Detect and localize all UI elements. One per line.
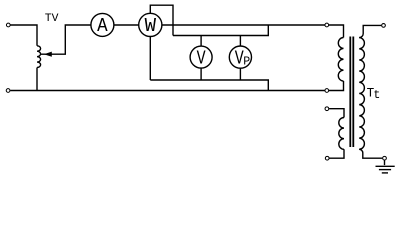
svg-text:TV: TV — [45, 13, 59, 25]
svg-text:t: t — [373, 89, 380, 102]
svg-text:A: A — [97, 15, 108, 37]
svg-text:W: W — [145, 15, 157, 37]
svg-text:V: V — [197, 47, 206, 69]
svg-text:P: P — [243, 56, 250, 69]
